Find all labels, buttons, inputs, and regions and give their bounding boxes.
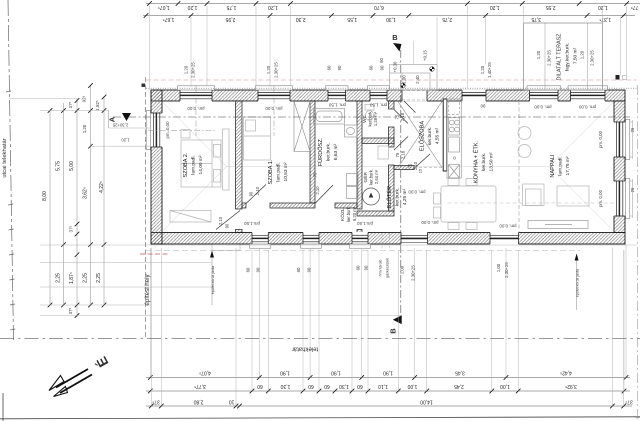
bottom horizontal line y315.5 — [40, 315, 401, 317]
svg-text:SZOBA 1.: SZOBA 1. — [268, 159, 274, 184]
interior wall P2 (SZOBA1/FURDOSZ) — [310, 101, 315, 203]
roof hip diagonal top-left — [163, 103, 227, 167]
svg-text:1,90: 1,90 — [331, 370, 341, 376]
terrace outline — [524, 23, 603, 90]
terrace corner level marker square — [616, 75, 620, 80]
door leaf SZOBA1 — [246, 185, 266, 204]
svg-text:1,10: 1,10 — [378, 383, 388, 389]
left dim vertical line x50 — [49, 111, 51, 306]
terrace corner marker outline square — [623, 76, 627, 80]
svg-text:épület körüli járda: épület körüli járda — [576, 269, 580, 297]
svg-text:1,20: 1,20 — [82, 124, 87, 133]
row B labels — [194, 383, 577, 389]
svg-text:37⁵: 37⁵ — [152, 399, 160, 405]
svg-text:2,10: 2,10 — [315, 186, 320, 195]
porch level marker 2 (checkered) — [401, 83, 406, 88]
top extension lines — [150, 6, 627, 90]
room label KONYHA — [473, 140, 495, 183]
window W7 top (NAPPALI/terasz) — [568, 86, 608, 102]
entrance door top wall — [402, 90, 427, 113]
exterior wall left — [151, 90, 162, 244]
interior wall P3 lower stub — [357, 230, 362, 233]
svg-text:4,22⁵: 4,22⁵ — [99, 181, 105, 193]
bottom dimension row B line — [146, 390, 630, 392]
svg-text:2,30+25: 2,30+25 — [504, 262, 509, 278]
svg-text:3,92⁵: 3,92⁵ — [565, 383, 577, 389]
left horizontal connector y146.2 — [91, 145, 152, 147]
svg-text:pm. 0,00: pm. 0,00 — [187, 106, 205, 111]
furniture FURDOSZ bathtub — [314, 109, 345, 125]
svg-text:utcai telekhatár: utcai telekhatár — [2, 138, 8, 177]
window W1 centerline vertical — [195, 86, 197, 136]
svg-text:lam.padl.: lam.padl. — [191, 155, 197, 174]
terrace dim line right — [587, 23, 589, 90]
svg-text:2,80: 2,80 — [194, 399, 204, 405]
svg-text:1,75: 1,75 — [226, 4, 236, 10]
row2 labels — [163, 16, 612, 22]
room label NAPPALI — [550, 154, 571, 178]
section line B — [400, 50, 402, 316]
row C labels — [152, 399, 633, 405]
window right wall upper (NAPPALI) — [613, 120, 629, 160]
WC/GEP divider wall — [362, 138, 394, 144]
WC-GEP east wall seg1 — [389, 101, 395, 109]
row B ticks — [148, 389, 626, 394]
svg-text:90: 90 — [225, 223, 230, 228]
svg-text:ker.burk.: ker.burk. — [427, 127, 433, 145]
svg-text:60: 60 — [324, 383, 330, 389]
window left wall (SZOBA2) — [146, 111, 162, 150]
svg-text:3,62⁵: 3,62⁵ — [83, 187, 89, 199]
svg-text:1,20: 1,20 — [266, 65, 271, 74]
svg-text:90: 90 — [249, 191, 254, 196]
svg-text:8,00: 8,00 — [42, 191, 48, 201]
svg-text:1,20: 1,20 — [187, 4, 197, 10]
svg-text:KONYHA + ÉTK.: KONYHA + ÉTK. — [473, 140, 480, 183]
room label ELOTER — [386, 186, 408, 208]
svg-text:pm. 0,00: pm. 0,00 — [499, 224, 517, 229]
roof hip diagonal bottom-left — [163, 167, 227, 231]
svg-text:77⁵: 77⁵ — [631, 4, 639, 10]
svg-text:5,75: 5,75 — [56, 161, 62, 171]
dim 25 bracket lines — [630, 120, 633, 218]
svg-text:pm. 0,00: pm. 0,00 — [598, 130, 603, 148]
svg-text:90: 90 — [307, 267, 312, 272]
svg-text:pm.1,50: pm.1,50 — [357, 221, 373, 226]
svg-text:1,90: 1,90 — [383, 370, 393, 376]
svg-text:2,30+25: 2,30+25 — [191, 62, 196, 78]
dashed ceiling line across KONYHA/NAPPALI — [448, 202, 615, 204]
svg-text:1,67⁵: 1,67⁵ — [163, 16, 175, 22]
bottom horizontal line y245 — [40, 244, 637, 246]
WC-GEP east wall seg2 — [389, 127, 395, 147]
porch witness line — [412, 41, 414, 65]
terrace label — [556, 33, 579, 81]
row1 ticks — [147, 1, 629, 6]
svg-text:ker.burk.: ker.burk. — [395, 188, 401, 206]
svg-text:2,30+25: 2,30+25 — [590, 50, 595, 66]
door bottom (NAPPALI terrace door) — [490, 232, 519, 245]
door bottom (ELOTER entrance) — [401, 232, 428, 245]
section marker B bottom triangle — [393, 315, 402, 324]
ELOSZOBA/KONYHA partition wall — [443, 99, 447, 171]
window right wall lower (NAPPALI) — [613, 179, 629, 219]
svg-text:pm. 0,00: pm. 0,00 — [534, 105, 552, 110]
right side boundary dash line — [637, 85, 639, 421]
svg-text:1,37⁵: 1,37⁵ — [599, 16, 611, 22]
window bottom 3 (GEP) — [350, 232, 371, 248]
svg-text:60: 60 — [257, 383, 263, 389]
svg-text:pm. 0,00: pm. 0,00 — [265, 106, 283, 111]
window W1 top (SZOBA2) — [178, 86, 215, 102]
svg-text:90: 90 — [364, 265, 369, 270]
left horizontal connector y110.5 — [40, 110, 109, 112]
row2 ticks — [144, 13, 626, 18]
svg-text:B: B — [389, 328, 398, 334]
room label KOZL — [339, 206, 357, 222]
svg-text:60: 60 — [356, 265, 361, 270]
row A labels — [199, 370, 572, 376]
svg-text:1,20: 1,20 — [580, 50, 585, 59]
svg-text:pm. 0,00: pm. 0,00 — [578, 105, 596, 110]
svg-text:pm.1,50: pm.1,50 — [244, 221, 260, 226]
furniture SZOBA2 bed — [181, 140, 221, 187]
svg-text:1,00: 1,00 — [400, 265, 405, 274]
corridor wall right — [335, 203, 357, 208]
furniture NAPPALI sofa — [528, 221, 588, 229]
svg-text:10,53 m²: 10,53 m² — [283, 162, 289, 181]
svg-text:WC: WC — [362, 114, 367, 122]
north arrow — [49, 369, 92, 397]
svg-text:14,00: 14,00 — [420, 399, 433, 405]
left dim ticks — [48, 83, 107, 318]
svg-text:ker.burk.: ker.burk. — [481, 153, 487, 171]
svg-text:90: 90 — [337, 65, 342, 70]
svg-text:60: 60 — [327, 65, 332, 70]
entrance porch outline — [390, 65, 438, 91]
svg-text:60: 60 — [357, 383, 363, 389]
window bottom 2 (KOZL) — [301, 232, 322, 248]
svg-text:ker.burk.: ker.burk. — [326, 143, 332, 161]
svg-text:2,18: 2,18 — [400, 112, 405, 121]
svg-text:92⁵: 92⁵ — [82, 95, 87, 102]
dimension row2 top line — [143, 15, 635, 17]
furniture SZOBA2 wardrobe — [170, 211, 211, 223]
roof projection ridge line — [163, 103, 613, 231]
svg-text:1,00: 1,00 — [402, 75, 407, 84]
svg-text:3,45: 3,45 — [455, 370, 465, 376]
svg-text:1,30: 1,30 — [386, 16, 396, 22]
svg-text:ker.burk.: ker.burk. — [346, 206, 351, 222]
door D5 top (KONYHA terrace door) — [462, 90, 486, 102]
svg-text:75: 75 — [395, 152, 400, 157]
annotation line left (jarda) — [210, 245, 240, 306]
svg-text:2,10: 2,10 — [218, 216, 223, 225]
svg-text:2,40: 2,40 — [415, 75, 420, 84]
svg-text:2,30: 2,30 — [296, 16, 306, 22]
svg-text:1,30: 1,30 — [339, 383, 349, 389]
interior wall P3 upper (FURDOSZ/WC-GEP) — [357, 101, 362, 209]
svg-text:14,00 m²: 14,00 m² — [198, 155, 204, 174]
svg-text:1,30: 1,30 — [280, 383, 290, 389]
svg-text:lam.padl.: lam.padl. — [558, 156, 564, 175]
furniture SZOBA1 wardrobe with X — [294, 102, 310, 152]
svg-text:2,95: 2,95 — [225, 16, 235, 22]
furniture WC toilet — [365, 105, 374, 121]
svg-text:ker.burk.: ker.burk. — [369, 169, 374, 185]
bottom extension lines long — [150, 244, 626, 406]
furniture FURDOSZ washing machine boxes — [347, 174, 359, 199]
svg-text:75: 75 — [313, 172, 318, 177]
svg-text:2,30+25: 2,30+25 — [112, 123, 128, 128]
svg-text:FÜRDŐSZ.: FÜRDŐSZ. — [317, 137, 324, 166]
svg-text:pm. 0,00: pm. 0,00 — [408, 190, 426, 195]
bottom page line row D — [0, 417, 640, 419]
exterior wall right — [614, 101, 625, 233]
dimension row1 top line — [146, 3, 640, 5]
svg-text:60: 60 — [246, 267, 251, 272]
left horizontal connector y98.5 — [9, 98, 77, 100]
svg-text:NAPPALI: NAPPALI — [550, 154, 556, 178]
svg-text:ker.burk: ker.burk — [368, 111, 373, 127]
svg-text:37⁵: 37⁵ — [69, 225, 74, 232]
svg-text:75: 75 — [408, 163, 413, 168]
svg-text:2,55: 2,55 — [546, 4, 556, 10]
furniture KONYHA counter — [447, 99, 461, 178]
svg-text:4,25 m²: 4,25 m² — [402, 188, 408, 205]
svg-text:1,20: 1,20 — [536, 50, 541, 59]
svg-text:5,00: 5,00 — [69, 161, 75, 171]
bottom horizontal dashline y250.5 — [146, 250, 580, 252]
svg-text:1,00: 1,00 — [500, 383, 510, 389]
svg-text:4,55 m²: 4,55 m² — [435, 127, 441, 144]
svg-text:pm. 1,50: pm. 1,50 — [328, 103, 346, 108]
svg-text:60: 60 — [308, 383, 314, 389]
svg-text:1,00: 1,00 — [407, 383, 417, 389]
svg-text:5,20 m²: 5,20 m² — [352, 206, 357, 221]
left dim short line x108.7 — [108, 111, 110, 129]
svg-text:37⁵: 37⁵ — [68, 307, 73, 314]
room label ELOSZOBA — [419, 121, 441, 151]
svg-text:2,45: 2,45 — [454, 383, 464, 389]
svg-text:2,75: 2,75 — [442, 16, 452, 22]
room label FURDOSZ — [317, 137, 339, 166]
exterior wall top — [151, 90, 625, 101]
svg-text:75: 75 — [395, 114, 400, 119]
left dim vertical line x77 — [76, 99, 78, 318]
svg-text:1,87⁵: 1,87⁵ — [69, 272, 75, 284]
window left centerline horizontal — [148, 130, 216, 132]
svg-text:ELŐSZOBA: ELŐSZOBA — [419, 121, 426, 151]
left dim vertical line x63.5 — [63, 103, 65, 305]
roof hip diagonal top-right — [549, 103, 613, 167]
interior wall P1 upper (SZOBA2/SZOBA1) — [236, 101, 243, 209]
furniture GEP washing machine — [363, 188, 380, 205]
door leaf ELOSZOBA — [414, 154, 430, 169]
left dim vertical line x104 — [103, 97, 105, 305]
row1 labels — [158, 4, 639, 10]
svg-text:pm. 0,00: pm. 0,00 — [165, 121, 170, 139]
svg-text:2,10: 2,10 — [255, 186, 260, 195]
svg-text:fagy.ker.burk.: fagy.ker.burk. — [565, 43, 571, 71]
svg-text:2,25: 2,25 — [96, 273, 102, 283]
svg-text:3,75: 3,75 — [531, 16, 541, 22]
dotted strip above wall — [146, 87, 637, 89]
svg-text:37⁵: 37⁵ — [625, 399, 633, 405]
svg-text:2,10: 2,10 — [413, 161, 418, 170]
svg-text:60: 60 — [369, 65, 374, 70]
svg-text:+0,30: +0,30 — [393, 61, 398, 72]
furniture FURDOSZ washbasin — [345, 125, 358, 137]
svg-text:lam.padl.: lam.padl. — [276, 162, 282, 181]
porch level marker 1 (checkered) — [430, 67, 435, 72]
dashed ELOSZOBA/ELOTER boundary — [414, 167, 442, 169]
left horizontal connector y128 window dim — [109, 127, 151, 129]
svg-text:13,50 m²: 13,50 m² — [489, 152, 495, 171]
small black square top-left — [142, 84, 146, 88]
svg-text:ELŐTÉR: ELŐTÉR — [386, 186, 393, 208]
hmv tarolo annotation — [379, 233, 390, 278]
svg-text:90: 90 — [256, 267, 261, 272]
svg-text:KÖZL.: KÖZL. — [339, 207, 346, 221]
GEP south wall — [357, 211, 394, 216]
dashed KONYHA/NAPPALI boundary — [518, 101, 520, 233]
door leaf GEP — [394, 137, 408, 151]
svg-text:90: 90 — [379, 58, 384, 63]
svg-text:1,20: 1,20 — [480, 65, 485, 74]
exterior wall bottom — [151, 233, 625, 245]
svg-text:4,07⁵: 4,07⁵ — [199, 370, 211, 376]
svg-text:1,20: 1,20 — [490, 4, 500, 10]
left dim labels bottom — [56, 225, 103, 314]
door leaf FURDOSZ — [315, 185, 333, 204]
door leaf WC — [394, 110, 408, 124]
ELOSZOBA cross diagonal 2 — [398, 102, 442, 168]
svg-text:15: 15 — [418, 168, 423, 173]
svg-text:pm. 0,00: pm. 0,00 — [598, 189, 603, 207]
window W3 top (FURDOSZ) — [326, 86, 349, 102]
room label WC — [362, 111, 378, 127]
window W2 centerline vertical — [273, 86, 275, 136]
corridor wall mid — [270, 203, 315, 208]
furniture NAPPALI tv circles — [518, 127, 531, 158]
furniture SZOBA2 nightstand — [181, 130, 190, 139]
window bottom 1 (KOZL) — [250, 232, 271, 248]
epitesi hely red dash horizontal — [140, 253, 168, 255]
furniture GEP boiler — [378, 146, 389, 159]
svg-text:90: 90 — [480, 104, 485, 109]
roof hip diagonal bottom-right — [549, 167, 613, 231]
svg-text:DILATÁLT TERASZ: DILATÁLT TERASZ — [556, 33, 563, 81]
furniture dining table — [434, 179, 497, 230]
ELOSZOBA cross diagonal 1 — [398, 102, 442, 168]
svg-text:építési hely: építési hely — [144, 273, 151, 305]
svg-text:1,20: 1,20 — [184, 65, 189, 74]
bottom horizontal line y305 — [40, 304, 151, 306]
page left edge segment — [2, 393, 4, 421]
svg-text:6,70: 6,70 — [374, 4, 384, 10]
svg-text:épület körüli járda: épület körüli járda — [211, 266, 215, 294]
svg-text:1,20: 1,20 — [268, 4, 278, 10]
svg-text:1,20: 1,20 — [121, 138, 130, 143]
svg-text:17,75 m²: 17,75 m² — [565, 156, 571, 175]
svg-text:4,42⁵: 4,42⁵ — [560, 370, 572, 376]
furniture NAPPALI coffee table — [557, 186, 589, 206]
svg-text:10: 10 — [229, 399, 235, 405]
svg-text:6,63 m²: 6,63 m² — [333, 143, 339, 160]
svg-text:SZOBA 2.: SZOBA 2. — [183, 152, 189, 177]
furniture NAPPALI armchair — [523, 184, 545, 206]
svg-text:1,28 m²: 1,28 m² — [373, 111, 378, 126]
row A ticks — [148, 375, 628, 380]
svg-text:2,25: 2,25 — [56, 273, 62, 283]
svg-text:3,77⁵: 3,77⁵ — [194, 383, 206, 389]
svg-text:37⁵: 37⁵ — [68, 101, 73, 108]
svg-text:60: 60 — [296, 267, 301, 272]
bottom dimension row C line — [146, 405, 632, 407]
window W2 top (SZOBA1) — [256, 86, 293, 102]
room label SZOBA 1 — [268, 159, 289, 184]
corridor wall stub left — [242, 203, 246, 208]
svg-text:pm. 0,00: pm. 0,00 — [421, 220, 439, 225]
left dim labels top — [42, 95, 105, 200]
svg-text:25: 25 — [630, 127, 635, 132]
svg-text:1,07⁵: 1,07⁵ — [158, 4, 170, 10]
furniture SZOBA1 bed — [244, 117, 271, 160]
svg-text:telekhatár: telekhatár — [292, 346, 318, 352]
left dim vertical line x90.5 — [90, 85, 92, 305]
bottom horizontal line y262.5 — [40, 262, 212, 264]
svg-text:2,30+25: 2,30+25 — [411, 265, 416, 281]
interior wall P1 lower stub — [236, 230, 243, 233]
svg-text:2,18: 2,18 — [401, 150, 406, 159]
terrace dim line left — [544, 23, 546, 90]
telekhatar boundary line bottom — [0, 338, 640, 340]
WC-GEP east wall seg3 — [389, 165, 395, 211]
bottom dimension row A line — [146, 377, 630, 379]
ELOSZOBA south stub wall — [394, 166, 414, 170]
section marker A triangle — [122, 113, 131, 121]
svg-text:B: B — [392, 33, 398, 42]
door leaf SZOBA2 — [216, 211, 240, 230]
bottom horizontal line y287 — [40, 286, 212, 288]
svg-text:25: 25 — [630, 187, 635, 192]
row C ticks — [149, 404, 626, 409]
svg-text:1,20: 1,20 — [598, 4, 608, 10]
annotation line right (jarda) — [575, 254, 580, 311]
section marker B top triangle — [393, 43, 402, 52]
window W6 top (KONYHA) — [527, 86, 561, 102]
roof overhang dashed line — [146, 79, 637, 81]
svg-text:1,55: 1,55 — [347, 16, 357, 22]
svg-text:2,30+25: 2,30+25 — [274, 62, 279, 78]
svg-text:1,00: 1,00 — [496, 263, 501, 272]
svg-text:gázkészülék: gázkészülék — [386, 258, 390, 278]
section line A — [113, 116, 630, 118]
svg-text:1,90: 1,90 — [280, 370, 290, 376]
utcai telekhatar boundary line left — [6, 0, 15, 340]
svg-text:1,52⁵: 1,52⁵ — [95, 100, 100, 111]
svg-text:7,50 m²: 7,50 m² — [573, 47, 579, 64]
epitesi hely red boundary vertical — [145, 77, 147, 338]
svg-text:2,25: 2,25 — [83, 273, 89, 283]
svg-text:1,40+25: 1,40+25 — [487, 62, 492, 78]
svg-text:90: 90 — [380, 65, 385, 70]
window W4 top (WC) — [368, 86, 390, 102]
room label SZOBA 2 — [183, 152, 204, 177]
svg-text:hmv tároló: hmv tároló — [379, 260, 383, 277]
room label GEP — [362, 169, 379, 185]
